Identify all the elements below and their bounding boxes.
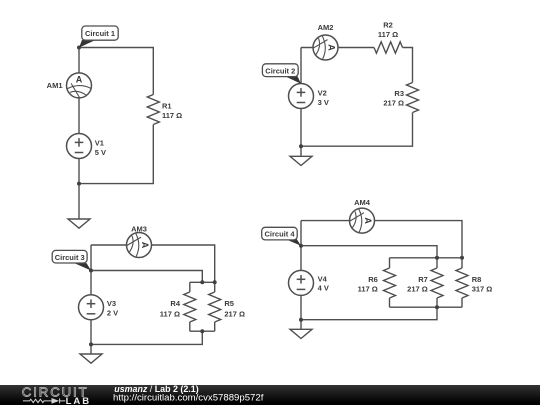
svg-text:Circuit 4: Circuit 4: [264, 230, 295, 239]
svg-text:R2: R2: [383, 20, 393, 29]
svg-text:AM2: AM2: [318, 23, 334, 32]
svg-text:317 Ω: 317 Ω: [472, 285, 493, 294]
svg-text:5 V: 5 V: [95, 148, 106, 157]
svg-text:3 V: 3 V: [318, 98, 329, 107]
svg-text:AM3: AM3: [131, 225, 147, 234]
svg-text:R5: R5: [224, 299, 234, 308]
svg-text:117 Ω: 117 Ω: [160, 310, 180, 319]
svg-text:Circuit 2: Circuit 2: [265, 66, 295, 75]
svg-text:4 V: 4 V: [318, 284, 329, 293]
svg-text:V2: V2: [318, 89, 327, 98]
svg-text:2 V: 2 V: [107, 309, 118, 318]
svg-text:V4: V4: [318, 274, 328, 283]
svg-text:R1: R1: [162, 101, 172, 110]
svg-text:R8: R8: [472, 275, 482, 284]
svg-text:R4: R4: [170, 299, 180, 308]
svg-text:217 Ω: 217 Ω: [224, 310, 245, 319]
svg-text:117 Ω: 117 Ω: [378, 30, 398, 39]
svg-text:217 Ω: 217 Ω: [383, 99, 404, 108]
svg-text:R6: R6: [368, 275, 378, 284]
svg-text:V3: V3: [107, 299, 116, 308]
svg-text:117 Ω: 117 Ω: [358, 285, 378, 294]
svg-text:R3: R3: [394, 89, 404, 98]
svg-text:http://circuitlab.com/cvx57889: http://circuitlab.com/cvx57889p572f: [113, 393, 264, 404]
svg-text:R7: R7: [418, 275, 428, 284]
svg-text:AM1: AM1: [47, 81, 63, 90]
svg-text:Circuit 3: Circuit 3: [55, 253, 85, 262]
svg-text:217 Ω: 217 Ω: [407, 285, 428, 294]
svg-text:117 Ω: 117 Ω: [162, 111, 182, 120]
svg-text:AM4: AM4: [354, 198, 371, 207]
svg-text:Circuit 1: Circuit 1: [85, 29, 115, 38]
svg-text:V1: V1: [95, 139, 104, 148]
svg-text:LAB: LAB: [66, 396, 92, 405]
